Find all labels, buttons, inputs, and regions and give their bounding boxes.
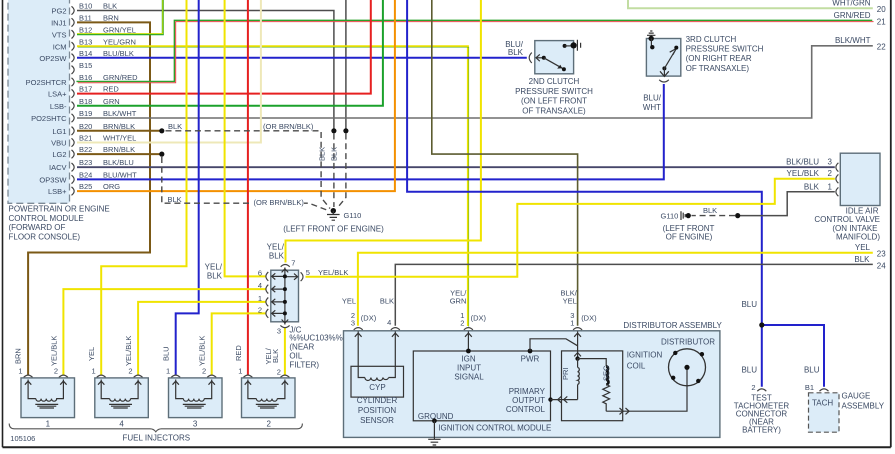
splice dot B20: [159, 128, 164, 133]
svg-text:2: 2: [828, 169, 833, 178]
svg-text:BLK: BLK: [103, 2, 117, 11]
svg-text:BLU/: BLU/: [643, 94, 662, 103]
svg-text:CONTROL VALVE: CONTROL VALVE: [814, 215, 880, 224]
wire B11 BRN: [28, 22, 150, 375]
svg-text:(DX): (DX): [471, 314, 487, 323]
svg-text:YEL/: YEL/: [205, 263, 223, 272]
splice dot BLU: [759, 322, 764, 327]
svg-text:WHT/GRN: WHT/GRN: [832, 0, 870, 8]
svg-text:B17: B17: [79, 85, 92, 94]
injector cylinder numbers: [46, 420, 272, 429]
dot PWR input: [528, 349, 533, 354]
primary winding PRI: [561, 359, 579, 400]
wire YEL/BLK junction connector pin 4 to injector 1 pin 2: [63, 289, 266, 375]
svg-text:PO2SHTCR: PO2SHTCR: [26, 78, 67, 87]
2nd clutch pressure switch: [529, 40, 580, 74]
svg-text:BATTERY): BATTERY): [742, 426, 781, 435]
svg-text:FUEL INJECTORS: FUEL INJECTORS: [123, 433, 191, 442]
svg-text:LSA+: LSA+: [48, 90, 67, 99]
splice dot B22: [159, 152, 164, 157]
svg-text:CONTROL: CONTROL: [506, 405, 546, 414]
splice dot BLK: [735, 213, 740, 218]
svg-text:OUTPUT: OUTPUT: [512, 396, 545, 405]
junction dot coil top: [575, 356, 579, 360]
svg-text:LSB-: LSB-: [50, 102, 67, 111]
svg-text:(FORWARD OF: (FORWARD OF: [9, 223, 66, 232]
svg-text:YEL/: YEL/: [267, 243, 285, 252]
svg-text:2ND CLUTCH: 2ND CLUTCH: [529, 77, 580, 86]
caption J/C: [289, 325, 342, 369]
svg-text:20: 20: [877, 5, 886, 14]
svg-text:B22: B22: [79, 145, 92, 154]
fuel injector 1: [21, 375, 75, 418]
PCM module box (powertrain control module): [8, 0, 70, 203]
svg-text:PRESSURE SWITCH: PRESSURE SWITCH: [515, 87, 593, 96]
caption test tachometer connector: [734, 394, 790, 435]
wire B16 GRN/RED to edge 21: [76, 20, 872, 81]
wire BLK idle air valve pin 1 to G110 splice: [738, 192, 835, 216]
wire WHT/GRN to edge 20: [628, 0, 873, 8]
label YEL/BLK at junction pin 6 wire: [205, 263, 223, 281]
svg-text:5: 5: [306, 268, 310, 277]
svg-text:WHT/YEL: WHT/YEL: [103, 134, 136, 143]
svg-text:ICM: ICM: [53, 42, 67, 51]
splice dot BLK vertical 2: [343, 128, 348, 133]
svg-text:BLK: BLK: [269, 252, 285, 261]
ground G110 left: [327, 208, 340, 220]
wire B24 BLU/WHT to 3rd clutch switch: [77, 84, 664, 179]
svg-text:PRI: PRI: [561, 367, 570, 380]
svg-text:3RD CLUTCH: 3RD CLUTCH: [686, 35, 737, 44]
3rd clutch pressure switch: [646, 31, 680, 82]
svg-text:ORG: ORG: [103, 182, 120, 191]
svg-text:(NEAR: (NEAR: [289, 342, 314, 351]
svg-text:1: 1: [18, 367, 22, 376]
svg-text:BLK/WHT: BLK/WHT: [835, 36, 871, 45]
svg-text:4: 4: [119, 420, 124, 429]
svg-text:3: 3: [351, 318, 355, 327]
tachometer gauge dashed box: [809, 393, 840, 432]
svg-text:(OR BRN/BLK): (OR BRN/BLK): [254, 198, 305, 207]
fuel injector 4: [95, 375, 149, 418]
svg-text:G110: G110: [661, 212, 679, 221]
svg-text:OF ENGINE): OF ENGINE): [666, 233, 713, 242]
2nd clutch switch caption: [515, 77, 593, 115]
svg-text:PG2: PG2: [51, 7, 66, 16]
wire BLK from top edge to splice: [345, 0, 347, 130]
svg-text:YEL/BLK: YEL/BLK: [198, 336, 207, 366]
svg-text:BRN/BLK: BRN/BLK: [103, 145, 135, 154]
svg-text:1: 1: [258, 294, 262, 303]
svg-text:BLK: BLK: [271, 349, 280, 363]
svg-text:2: 2: [266, 420, 271, 429]
svg-text:BLK: BLK: [804, 182, 820, 191]
svg-text:GRN: GRN: [450, 296, 467, 305]
svg-text:B20: B20: [79, 122, 92, 131]
svg-text:B25: B25: [79, 182, 92, 191]
svg-text:SIGNAL: SIGNAL: [454, 373, 484, 382]
wire YEL/BLK junction connector pin 1 to injector 4 pin 2: [138, 302, 266, 376]
svg-text:INJ1: INJ1: [51, 18, 66, 27]
svg-text:TACH: TACH: [812, 398, 833, 407]
svg-text:7: 7: [291, 259, 295, 268]
junction connector J/C box: [266, 265, 303, 328]
svg-text:PO2SHTC: PO2SHTC: [31, 114, 67, 123]
svg-text:B11: B11: [79, 13, 92, 22]
svg-text:IGNITION: IGNITION: [627, 350, 663, 359]
PCM caption: [9, 204, 110, 241]
gauge assembly connector B1: [805, 383, 829, 392]
svg-text:4: 4: [258, 281, 262, 290]
fuel injector 2: [242, 375, 296, 418]
svg-text:IGN: IGN: [461, 354, 475, 363]
svg-text:B12: B12: [79, 25, 92, 34]
labels BLU on tachometer wires: [741, 300, 819, 375]
svg-text:POSITION: POSITION: [358, 406, 396, 415]
svg-text:BRN/BLK: BRN/BLK: [103, 122, 135, 131]
svg-text:YEL/BLK: YEL/BLK: [49, 336, 58, 366]
svg-text:1: 1: [570, 318, 574, 327]
svg-text:GRN/YEL: GRN/YEL: [103, 25, 136, 34]
svg-text:3: 3: [828, 157, 833, 166]
svg-text:OIL: OIL: [289, 351, 302, 360]
ICM internal labels: [418, 354, 546, 421]
wire B17 RED: [77, 0, 371, 94]
svg-text:OP3SW: OP3SW: [39, 175, 67, 184]
svg-text:(LEFT FRONT OF ENGINE): (LEFT FRONT OF ENGINE): [283, 225, 384, 234]
svg-text:2: 2: [277, 368, 281, 377]
PCM pin name labels: [26, 7, 68, 197]
svg-text:(DX): (DX): [361, 314, 377, 323]
svg-text:CYLINDER: CYLINDER: [357, 396, 398, 405]
svg-text:BLK: BLK: [168, 122, 182, 131]
svg-text:1: 1: [166, 367, 170, 376]
svg-text:BLK: BLK: [380, 296, 394, 305]
dashed wire BLK from splice 2 to G110: [337, 134, 346, 209]
svg-text:(ON LEFT FRONT: (ON LEFT FRONT: [521, 97, 587, 106]
svg-text:YEL/GRN: YEL/GRN: [103, 37, 136, 46]
svg-text:IACV: IACV: [49, 163, 67, 172]
svg-text:LSB+: LSB+: [48, 187, 67, 196]
svg-text:YEL/BLK: YEL/BLK: [124, 336, 133, 366]
page border left: [2, 0, 4, 447]
svg-text:2: 2: [258, 305, 262, 314]
svg-text:YEL/BLK: YEL/BLK: [787, 169, 820, 178]
svg-text:SEC: SEC: [602, 365, 611, 381]
svg-text:RED: RED: [234, 345, 243, 361]
svg-text:OF TRANSAXLE): OF TRANSAXLE): [686, 64, 750, 73]
svg-text:B23: B23: [79, 158, 92, 167]
svg-text:3: 3: [193, 420, 198, 429]
svg-text:1: 1: [238, 367, 242, 376]
svg-text:BLK: BLK: [703, 206, 717, 215]
svg-text:BLK: BLK: [854, 255, 870, 264]
wire BLU branch to gauge assembly B1: [762, 325, 824, 387]
svg-text:B21: B21: [79, 134, 92, 143]
svg-text:DISTRIBUTOR ASSEMBLY: DISTRIBUTOR ASSEMBLY: [623, 321, 722, 330]
coil entry arrow: [574, 353, 581, 357]
PCM connector arcs B10-B25: [72, 6, 75, 195]
svg-text:1: 1: [46, 420, 51, 429]
svg-text:YEL: YEL: [87, 347, 96, 361]
caption ignition coil: [627, 350, 663, 370]
svg-text:BLU: BLU: [804, 366, 820, 375]
svg-text:B24: B24: [79, 170, 92, 179]
svg-text:BLK/BLU: BLK/BLU: [786, 157, 819, 166]
svg-text:3: 3: [277, 327, 281, 336]
wire BLK circuit 24 to distributor assembly: [395, 264, 873, 325]
svg-text:1: 1: [828, 182, 833, 191]
test tachometer connector: [751, 383, 766, 392]
svg-text:B14: B14: [79, 49, 92, 58]
svg-text:(DX): (DX): [581, 314, 597, 323]
svg-text:2: 2: [460, 318, 464, 327]
idle air control valve: [836, 153, 880, 205]
wire YEL/BLK junction connector pin 5 to idle air valve pin 2: [306, 179, 835, 277]
cylinder position sensor box: [351, 366, 404, 397]
wire YEL/BLK from top to junction connector pin 7: [286, 0, 481, 263]
svg-text:2: 2: [202, 367, 206, 376]
dashed wire BLK from B22 splice to G110: [162, 157, 330, 211]
PWR branch wire: [530, 339, 578, 351]
wire B18 GRN: [77, 0, 383, 106]
caption cylinder position sensor: [357, 396, 398, 425]
wire B14 BLU/BLK to 2nd clutch switch: [77, 57, 527, 59]
svg-text:FLOOR CONSOLE): FLOOR CONSOLE): [9, 233, 81, 242]
svg-text:B19: B19: [79, 109, 92, 118]
svg-text:MANIFOLD): MANIFOLD): [836, 233, 880, 242]
svg-text:YEL: YEL: [563, 296, 577, 305]
splice dot BLK vertical 1: [331, 128, 336, 133]
svg-text:B16: B16: [79, 73, 92, 82]
svg-text:YEL: YEL: [855, 243, 871, 252]
svg-text:2: 2: [54, 367, 58, 376]
injector wire colour labels rotated: [14, 336, 280, 366]
svg-text:1: 1: [92, 367, 96, 376]
svg-text:BLU: BLU: [162, 346, 171, 361]
injector pin numbers: [18, 367, 281, 377]
svg-text:21: 21: [877, 18, 886, 27]
svg-text:LG2: LG2: [52, 150, 66, 159]
distributor assembly box: [344, 331, 720, 438]
distributor circle: [669, 349, 706, 386]
svg-text:2: 2: [128, 367, 132, 376]
svg-text:VBU: VBU: [51, 139, 66, 148]
wire B13 YEL/GRN to ICM pin: [77, 46, 468, 326]
svg-text:B10: B10: [79, 2, 92, 11]
svg-text:POWERTRAIN OR ENGINE: POWERTRAIN OR ENGINE: [9, 204, 110, 213]
idle air valve caption: [814, 206, 880, 241]
svg-text:YEL/BLK: YEL/BLK: [318, 268, 348, 277]
svg-text:FILTER): FILTER): [289, 360, 319, 369]
svg-text:IGNITION CONTROL MODULE: IGNITION CONTROL MODULE: [438, 423, 551, 432]
svg-text:OP2SW: OP2SW: [39, 54, 67, 63]
svg-text:GRN/RED: GRN/RED: [834, 11, 871, 20]
svg-text:(OR BRN/BLK): (OR BRN/BLK): [263, 122, 314, 131]
svg-text:B13: B13: [79, 37, 92, 46]
svg-text:GAUGE: GAUGE: [842, 391, 871, 400]
ignition control module inner box: [413, 351, 550, 421]
secondary output wire to distributor: [606, 370, 687, 415]
svg-text:BLU/WHT: BLU/WHT: [103, 170, 137, 179]
svg-text:IDLE AIR: IDLE AIR: [846, 206, 879, 215]
svg-text:BLK: BLK: [508, 48, 524, 57]
svg-text:23: 23: [877, 250, 886, 259]
wire B20 BRN/BLK: [77, 130, 162, 132]
svg-text:6: 6: [258, 268, 262, 277]
right edge circuit labels: [832, 0, 886, 270]
fuel injector 3: [169, 375, 223, 418]
fuel injectors bracket: [9, 424, 302, 432]
svg-text:BLK: BLK: [207, 272, 223, 281]
wire B12 GRN/YEL: [77, 0, 163, 34]
svg-text:BLU: BLU: [741, 300, 757, 309]
svg-text:BLK: BLK: [329, 147, 338, 161]
label BLU/WHT: [643, 94, 662, 113]
label YEL/BLK at junction pin 7: [267, 243, 285, 261]
svg-text:ASSEMBLY: ASSEMBLY: [842, 401, 885, 410]
wire YEL/BLK junction connector pin 3 to injector 2 pin 2: [284, 327, 286, 376]
svg-text:G110: G110: [344, 211, 362, 220]
svg-text:BLK: BLK: [318, 147, 327, 161]
svg-text:SENSOR: SENSOR: [360, 416, 394, 425]
wire B25 ORG: [77, 0, 395, 191]
ground G110 right: [681, 211, 691, 220]
svg-text:GRN: GRN: [103, 97, 120, 106]
svg-text:BLK: BLK: [168, 195, 182, 204]
dot IGN input: [466, 349, 471, 354]
wire BLK/YEL from top to distributor assembly pin: [432, 0, 578, 326]
wire RED from top to injector 2 pin 1: [247, 0, 249, 376]
svg-text:VTS: VTS: [52, 30, 67, 39]
ignition coil box: [562, 351, 623, 421]
dashed wire BLK from B20 splice to G110: [166, 131, 331, 209]
svg-text:B18: B18: [79, 97, 92, 106]
assembly pin labels: [342, 289, 597, 328]
svg-text:RED: RED: [103, 85, 119, 94]
svg-text:BLU: BLU: [741, 366, 757, 375]
page border bottom: [3, 446, 891, 448]
wire B10 BLK: [77, 11, 334, 130]
svg-text:4: 4: [387, 318, 391, 327]
wire YEL/BLK from top to junction connector pin 6: [225, 0, 267, 276]
svg-text:B1: B1: [805, 383, 814, 392]
wire BLU from top to injector 3 pin 1: [176, 0, 199, 376]
svg-text:CONTROL MODULE: CONTROL MODULE: [9, 214, 84, 223]
wire BLU from top to test tachometer and gauge: [407, 0, 762, 387]
svg-text:BLK/WHT: BLK/WHT: [103, 109, 137, 118]
svg-text:LG1: LG1: [52, 127, 66, 136]
page border right: [890, 0, 892, 447]
svg-text:BRN: BRN: [103, 13, 119, 22]
dashed wire BLK to G110 right: [692, 215, 736, 217]
assembly pin arcs: [354, 328, 582, 330]
primary output control wire with arrows: [548, 396, 577, 402]
svg-text:WHT: WHT: [643, 103, 661, 112]
svg-text:24: 24: [877, 261, 886, 270]
svg-text:CYP: CYP: [369, 383, 385, 392]
PCM pin number and wire colour labels: [79, 2, 138, 192]
wire B23 BLK/BLU to idle air control valve pin 3: [77, 166, 835, 168]
label (OR BRN/BLK) on B22 dashed run: [252, 198, 304, 207]
svg-text:22: 22: [877, 43, 886, 52]
dashed wire BLK from splice 1 to G110: [333, 134, 335, 208]
svg-text:BLK/BLU: BLK/BLU: [103, 158, 134, 167]
svg-text:OF TRANSAXLE): OF TRANSAXLE): [522, 106, 586, 115]
wire B22 BRN/BLK: [77, 153, 162, 155]
svg-text:(ON RIGHT REAR: (ON RIGHT REAR: [686, 54, 752, 63]
svg-text:COIL: COIL: [627, 361, 646, 370]
svg-text:BRN: BRN: [14, 348, 23, 364]
idle air valve pin labels: [786, 157, 832, 191]
wire YEL circuit 23 to distributor assembly: [358, 253, 873, 326]
wire YEL from top to injector 4 pin 1: [101, 0, 186, 376]
svg-text:(ON INTAKE: (ON INTAKE: [832, 224, 877, 233]
svg-text:INPUT: INPUT: [457, 364, 481, 373]
svg-text:105106: 105106: [10, 434, 35, 443]
svg-text:2: 2: [751, 383, 755, 392]
caption gauge assembly: [842, 391, 885, 410]
3rd clutch switch caption: [686, 35, 764, 73]
svg-text:GRN/RED: GRN/RED: [103, 73, 138, 82]
svg-text:PWR: PWR: [521, 354, 540, 363]
svg-text:BLU/BLK: BLU/BLK: [103, 49, 134, 58]
wire YEL/BLK junction connector pin 2 to injector 3 pin 2: [212, 313, 267, 375]
svg-text:PRIMARY: PRIMARY: [509, 387, 546, 396]
ICM ground wire and symbol: [428, 418, 440, 445]
svg-text:B15: B15: [79, 61, 92, 70]
label BLU/BLK at 2nd clutch switch: [505, 40, 524, 57]
wire B21 WHT/YEL: [77, 0, 261, 143]
svg-text:DISTRIBUTOR: DISTRIBUTOR: [661, 338, 715, 347]
secondary winding SEC: [578, 359, 611, 412]
wire B19 BLK/WHT to edge 22: [77, 46, 873, 118]
junction connector pin numbers: [258, 259, 349, 336]
svg-text:YEL: YEL: [342, 296, 356, 305]
svg-text:PRESSURE SWITCH: PRESSURE SWITCH: [686, 45, 764, 54]
assembly pin entry arrows and leads: [355, 332, 581, 367]
svg-text:%%UC103%%: %%UC103%%: [289, 333, 342, 342]
